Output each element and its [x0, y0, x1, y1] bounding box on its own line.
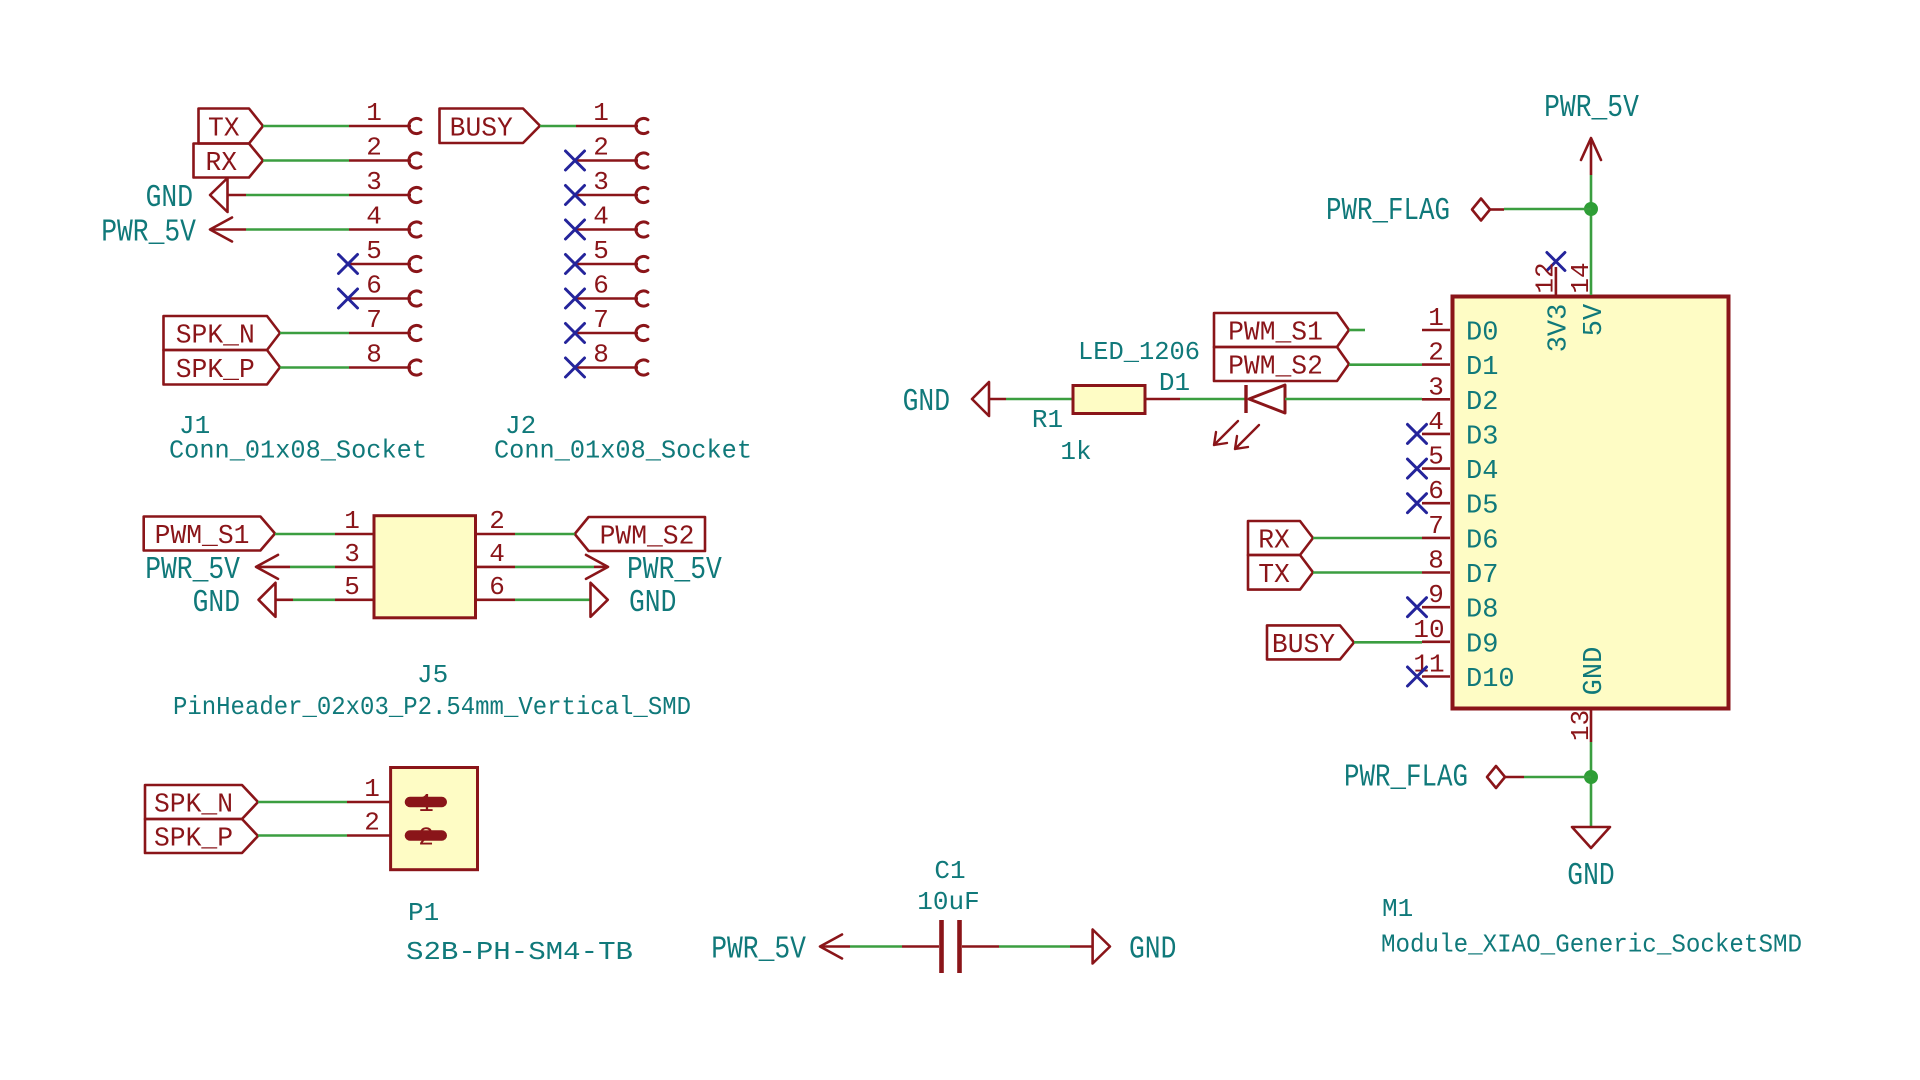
svg-text:PWR_5V: PWR_5V — [145, 553, 240, 588]
svg-text:PWR_FLAG: PWR_FLAG — [1344, 761, 1468, 796]
svg-text:7: 7 — [366, 305, 382, 335]
svg-text:PWR_5V: PWR_5V — [627, 553, 722, 588]
svg-text:PWR_5V: PWR_5V — [711, 933, 806, 968]
svg-text:SPK_P: SPK_P — [176, 356, 255, 386]
svg-text:PWR_5V: PWR_5V — [1544, 91, 1639, 126]
svg-text:PinHeader_02x03_P2.54mm_Vertic: PinHeader_02x03_P2.54mm_Vertical_SMD — [173, 692, 691, 722]
svg-text:8: 8 — [1428, 546, 1444, 576]
svg-text:2: 2 — [1428, 338, 1444, 368]
svg-text:D1: D1 — [1159, 368, 1190, 398]
svg-text:6: 6 — [366, 271, 382, 301]
svg-text:D0: D0 — [1466, 319, 1498, 349]
svg-text:2: 2 — [489, 506, 505, 536]
svg-text:S2B-PH-SM4-TB: S2B-PH-SM4-TB — [406, 937, 633, 967]
svg-text:4: 4 — [593, 202, 609, 232]
svg-text:GND: GND — [146, 181, 193, 216]
svg-text:1: 1 — [364, 774, 380, 804]
svg-text:2: 2 — [364, 808, 380, 838]
svg-text:BUSY: BUSY — [1272, 631, 1335, 661]
svg-text:10uF: 10uF — [917, 887, 979, 917]
svg-text:SPK_N: SPK_N — [176, 322, 255, 352]
svg-text:D7: D7 — [1466, 561, 1498, 591]
svg-text:6: 6 — [593, 271, 609, 301]
svg-text:BUSY: BUSY — [450, 114, 513, 144]
svg-text:GND: GND — [629, 586, 676, 621]
svg-text:4: 4 — [1428, 407, 1444, 437]
svg-text:2: 2 — [593, 133, 609, 163]
svg-text:Conn_01x08_Socket: Conn_01x08_Socket — [494, 436, 752, 466]
svg-text:TX: TX — [208, 115, 240, 145]
svg-text:D8: D8 — [1466, 596, 1498, 626]
svg-text:M1: M1 — [1382, 894, 1413, 924]
svg-text:Module_XIAO_Generic_SocketSMD: Module_XIAO_Generic_SocketSMD — [1381, 930, 1802, 960]
svg-text:D5: D5 — [1466, 492, 1498, 522]
svg-text:7: 7 — [593, 305, 609, 335]
svg-text:D2: D2 — [1466, 388, 1498, 418]
svg-text:D3: D3 — [1466, 422, 1498, 452]
svg-text:4: 4 — [366, 202, 382, 232]
svg-text:LED_1206: LED_1206 — [1078, 337, 1200, 367]
svg-text:5: 5 — [1428, 442, 1444, 472]
svg-text:R1: R1 — [1032, 405, 1063, 435]
svg-text:P1: P1 — [408, 898, 439, 928]
svg-text:5: 5 — [366, 236, 382, 266]
svg-text:1: 1 — [1428, 303, 1444, 333]
svg-text:PWM_S2: PWM_S2 — [600, 523, 695, 553]
svg-text:1k: 1k — [1060, 437, 1091, 467]
svg-text:PWM_S1: PWM_S1 — [1228, 319, 1323, 349]
svg-text:PWM_S1: PWM_S1 — [155, 522, 250, 552]
svg-text:3: 3 — [344, 539, 360, 569]
svg-text:5: 5 — [344, 572, 360, 602]
svg-text:GND: GND — [1129, 933, 1176, 968]
svg-text:GND: GND — [903, 385, 950, 420]
svg-text:C1: C1 — [934, 856, 965, 886]
svg-text:13: 13 — [1566, 710, 1596, 741]
svg-text:3: 3 — [1428, 372, 1444, 402]
svg-text:TX: TX — [1258, 561, 1290, 591]
svg-text:D4: D4 — [1466, 457, 1498, 487]
svg-text:GND: GND — [1580, 647, 1610, 696]
svg-text:D10: D10 — [1466, 665, 1515, 695]
svg-text:J5: J5 — [417, 660, 448, 690]
svg-text:D1: D1 — [1466, 353, 1498, 383]
svg-text:PWR_5V: PWR_5V — [101, 216, 196, 251]
svg-text:1: 1 — [366, 98, 382, 128]
svg-text:RX: RX — [1258, 527, 1290, 557]
svg-text:5V: 5V — [1580, 303, 1610, 336]
svg-text:D6: D6 — [1466, 526, 1498, 556]
svg-text:Conn_01x08_Socket: Conn_01x08_Socket — [169, 436, 427, 466]
svg-text:6: 6 — [489, 572, 505, 602]
svg-text:3: 3 — [593, 167, 609, 197]
svg-text:4: 4 — [489, 539, 505, 569]
svg-text:GND: GND — [1567, 859, 1614, 894]
svg-text:7: 7 — [1428, 511, 1444, 541]
svg-text:SPK_P: SPK_P — [154, 825, 233, 855]
svg-text:8: 8 — [593, 340, 609, 370]
svg-text:10: 10 — [1413, 615, 1444, 645]
svg-text:SPK_N: SPK_N — [154, 791, 233, 821]
svg-text:1: 1 — [344, 506, 360, 536]
svg-text:PWR_FLAG: PWR_FLAG — [1326, 194, 1450, 229]
svg-text:GND: GND — [193, 586, 240, 621]
svg-text:1: 1 — [593, 98, 609, 128]
svg-text:5: 5 — [593, 236, 609, 266]
svg-text:PWM_S2: PWM_S2 — [1228, 353, 1323, 383]
svg-text:3: 3 — [366, 167, 382, 197]
svg-text:D9: D9 — [1466, 630, 1498, 660]
svg-text:RX: RX — [205, 149, 237, 179]
svg-text:3V3: 3V3 — [1545, 304, 1575, 353]
svg-text:8: 8 — [366, 340, 382, 370]
svg-text:2: 2 — [366, 133, 382, 163]
svg-text:9: 9 — [1428, 580, 1444, 610]
svg-text:12: 12 — [1530, 262, 1560, 293]
svg-text:6: 6 — [1428, 476, 1444, 506]
